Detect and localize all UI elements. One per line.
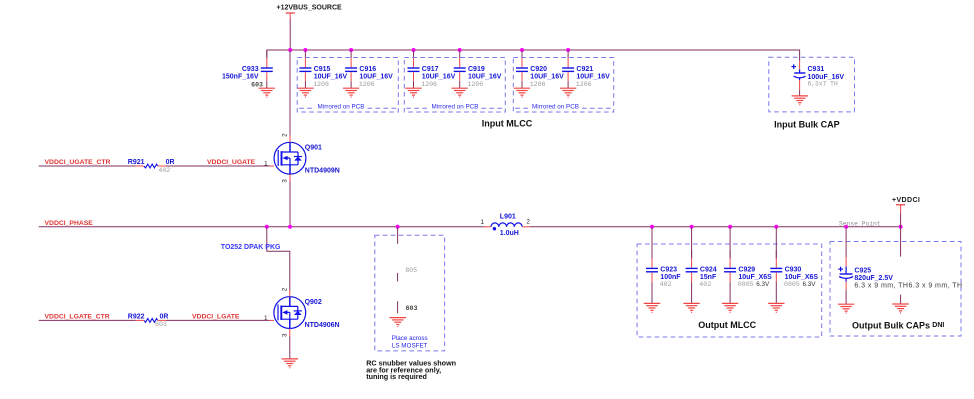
svg-text:603: 603 [155, 321, 167, 328]
svg-text:10UF_16V: 10UF_16V [314, 74, 348, 81]
capacitor C929 [724, 250, 736, 303]
R921 right pin stub [158, 165, 166, 167]
node bus/C917 [412, 48, 416, 52]
svg-text:1206: 1206 [530, 81, 546, 88]
dashed box RC snubber [375, 235, 445, 351]
svg-text:805: 805 [405, 267, 417, 274]
ground for C920 [514, 88, 530, 97]
R922 left pin stub [136, 319, 144, 321]
wire +12VBUS vertical to bus [289, 19, 291, 50]
svg-text:0805: 0805 [784, 281, 800, 288]
wire phase to C929 [729, 227, 731, 259]
wire phase to snubber resistor [397, 227, 399, 244]
svg-text:2: 2 [281, 287, 288, 291]
svg-text:Sense Point: Sense Point [839, 220, 881, 227]
capacitor C916 [345, 50, 357, 88]
capacitor C915 [299, 50, 311, 88]
wire snubber resistor to capacitor [397, 273, 399, 282]
svg-text:Q902: Q902 [305, 299, 322, 306]
wire DNI cap to ground [900, 295, 902, 304]
wire Q902 source to ground [289, 336, 291, 359]
wire Q901 source to phase [289, 182, 291, 227]
resistor R922 0R [144, 319, 158, 323]
ground for C925 [838, 304, 854, 313]
capacitor C921 [562, 50, 574, 88]
L901 pin 2 stub [522, 226, 529, 228]
svg-text:R922: R922 [128, 314, 145, 321]
wire VDDCI to DNI cap [900, 227, 902, 257]
ground for C917 [405, 88, 421, 97]
svg-text:Q901: Q901 [305, 145, 322, 152]
svg-text:Mirrored on PCB: Mirrored on PCB [532, 103, 579, 110]
L901 pin 1 stub [484, 226, 492, 228]
svg-text:C923: C923 [660, 266, 677, 273]
wire VDDCI_LGATE [166, 319, 269, 321]
svg-text:10UF_16V: 10UF_16V [576, 74, 610, 81]
svg-text:VDDCI_UGATE_CTR: VDDCI_UGATE_CTR [45, 159, 111, 166]
svg-text:150nF_16V: 150nF_16V [222, 74, 259, 81]
svg-text:1.0uH: 1.0uH [500, 230, 519, 237]
svg-text:402: 402 [158, 167, 170, 174]
wire bus to Q901 drain [289, 50, 291, 136]
node phase/jog [265, 225, 269, 229]
svg-text:tuning is required: tuning is required [366, 372, 427, 381]
wire phase jog to Q902 drain [267, 227, 290, 290]
svg-text:L901: L901 [500, 214, 516, 221]
svg-text:Input MLCC: Input MLCC [482, 118, 533, 128]
node phase/C923 [650, 225, 654, 229]
svg-text:R921: R921 [128, 159, 145, 166]
ground for C924 [683, 303, 699, 312]
svg-text:+12VBUS_SOURCE: +12VBUS_SOURCE [277, 4, 342, 11]
Q902 pin 3 stub [289, 329, 291, 337]
svg-text:LS MOSFET: LS MOSFET [392, 342, 428, 349]
Q902 pin 1 stub [269, 319, 274, 321]
svg-text:VDDCI_LGATE_CTR: VDDCI_LGATE_CTR [45, 314, 110, 321]
svg-text:10uF_X6S: 10uF_X6S [785, 274, 819, 281]
wire VDDCI_PHASE right of L901 [530, 226, 901, 228]
svg-text:100nF: 100nF [660, 274, 681, 281]
capacitor C923 [646, 250, 658, 303]
resistor R921 0R [144, 164, 158, 168]
svg-text:820uF_2.5V: 820uF_2.5V [854, 275, 893, 282]
dashed box mirrored on PCB 3 [513, 58, 613, 113]
svg-text:1206: 1206 [467, 81, 483, 88]
svg-text:0805: 0805 [738, 281, 754, 288]
node bus/C919 [458, 48, 462, 52]
svg-text:VDDCI_LGATE: VDDCI_LGATE [192, 314, 240, 321]
svg-text:10UF_16V: 10UF_16V [422, 74, 456, 81]
svg-text:VDDCI_UGATE: VDDCI_UGATE [207, 159, 256, 166]
svg-text:1206: 1206 [576, 81, 592, 88]
svg-text:TO252 DPAK PKG: TO252 DPAK PKG [221, 244, 281, 251]
svg-text:C925: C925 [854, 268, 871, 275]
svg-text:402: 402 [660, 281, 672, 288]
svg-text:C917: C917 [422, 66, 439, 73]
Q901 pin 1 stub [270, 165, 275, 167]
capacitor C924 [686, 250, 698, 303]
node phase/snubber [396, 225, 400, 229]
svg-text:3: 3 [281, 333, 288, 337]
R922 right pin stub [158, 319, 166, 321]
svg-text:2: 2 [526, 219, 530, 226]
svg-text:1206: 1206 [313, 81, 329, 88]
svg-text:Mirrored on PCB: Mirrored on PCB [432, 103, 479, 110]
svg-text:+VDDCI: +VDDCI [892, 197, 920, 204]
ground for C933 [259, 88, 275, 97]
ground for C923 [644, 303, 660, 312]
ground for C930 [768, 303, 784, 312]
dashed box mirrored on PCB 2 [404, 58, 505, 113]
svg-text:1206: 1206 [359, 81, 375, 88]
svg-text:603: 603 [251, 81, 263, 88]
wire VDDCI_PHASE left of L901 [39, 226, 484, 228]
svg-text:10uF_X6S: 10uF_X6S [738, 274, 772, 281]
wire VDDCI_LGATE_CTR [39, 319, 136, 321]
ground for Q902 source [282, 359, 298, 368]
capacitor C925 polarized [839, 227, 853, 304]
svg-text:C920: C920 [530, 66, 547, 73]
node bus/C915 [303, 48, 307, 52]
transistor Q901 NTD4909N [274, 142, 306, 174]
capacitor C931 polarized [794, 61, 806, 96]
Q901 pin 2 stub [289, 136, 291, 143]
node bus/main [288, 48, 292, 52]
svg-text:NTD4909N: NTD4909N [305, 168, 340, 175]
capacitor C933 [261, 50, 273, 88]
dashed box input bulk cap [769, 57, 855, 112]
ground for C916 [343, 88, 359, 97]
svg-text:Input Bulk CAP: Input Bulk CAP [774, 119, 840, 129]
svg-text:6.3V: 6.3V [803, 281, 817, 288]
svg-text:C916: C916 [359, 66, 376, 73]
node bus/C921 [566, 48, 570, 52]
capacitor C919 [454, 50, 466, 88]
svg-text:C929: C929 [738, 266, 755, 273]
wire snubber capacitor to ground [397, 301, 399, 313]
svg-text:0R: 0R [166, 159, 175, 166]
svg-text:6.3 x 9 mm, TH: 6.3 x 9 mm, TH [909, 283, 963, 290]
Q902 pin 2 stub [289, 290, 291, 297]
svg-text:402: 402 [699, 281, 711, 288]
inner dashed edge 3 [515, 107, 611, 109]
svg-text:6.3 x 9 mm, TH: 6.3 x 9 mm, TH [854, 283, 908, 290]
node bus/C920 [520, 48, 524, 52]
svg-text:6.3V: 6.3V [756, 281, 770, 288]
ground for C919 [452, 88, 468, 97]
node phase/C930 [774, 225, 778, 229]
node phase/Q901 [288, 225, 292, 229]
svg-text:603: 603 [406, 305, 418, 312]
capacitor C930 [770, 250, 782, 303]
svg-text:0R: 0R [160, 314, 169, 321]
wire VDDCI_UGATE_CTR [39, 165, 136, 167]
dashed box mirrored on PCB 1 [297, 58, 398, 113]
wire VDDCI_UGATE [166, 165, 270, 167]
inner dashed edge 2 [406, 107, 503, 109]
svg-text:C924: C924 [700, 266, 717, 273]
svg-text:1: 1 [480, 219, 484, 226]
node phase/C929 [728, 225, 732, 229]
transistor Q902 NTD4906N [274, 297, 306, 329]
power symbol +VDDCI bar [896, 205, 905, 213]
C931 plus sign [791, 64, 796, 69]
svg-text:Output MLCC: Output MLCC [698, 320, 756, 330]
svg-text:10UF_16V: 10UF_16V [359, 74, 393, 81]
R921 left pin stub [136, 165, 144, 167]
svg-text:10UF_16V: 10UF_16V [530, 74, 564, 81]
svg-text:Mirrored on PCB: Mirrored on PCB [318, 103, 365, 110]
node phase/C925 [844, 225, 848, 229]
node bus/C916 [349, 48, 353, 52]
svg-text:VDDCI_PHASE: VDDCI_PHASE [45, 220, 94, 227]
node phase/C924 [690, 225, 694, 229]
svg-text:1206: 1206 [421, 81, 437, 88]
svg-text:C915: C915 [314, 66, 331, 73]
svg-text:15nF: 15nF [700, 274, 717, 281]
ground for C929 [722, 303, 738, 312]
wire +VDDCI to phase [900, 213, 902, 227]
svg-text:3: 3 [282, 179, 289, 183]
ground for DNI cap [892, 304, 908, 313]
power symbol +12VBUS_SOURCE bar [286, 13, 295, 19]
dashed box output bulk caps [830, 242, 961, 337]
svg-text:Place across: Place across [392, 335, 428, 342]
svg-text:C931: C931 [808, 66, 825, 73]
ground for snubber [390, 318, 406, 327]
ground for C931 [792, 96, 808, 105]
svg-text:C933: C933 [242, 66, 259, 73]
node phase/VDDCI [899, 225, 903, 229]
L901 polarity dot [493, 227, 496, 230]
svg-text:C919: C919 [468, 66, 485, 73]
svg-text:C921: C921 [576, 66, 593, 73]
ground for C921 [560, 88, 576, 97]
svg-text:Output Bulk CAPs: Output Bulk CAPs [852, 321, 930, 331]
svg-text:6,3x7 TH: 6,3x7 TH [808, 81, 838, 88]
capacitor C920 [516, 50, 528, 88]
inner dashed edge 1 [299, 107, 396, 109]
dashed box output MLCC [637, 244, 822, 337]
wire +12VBUS horizontal bus [267, 50, 800, 61]
Q901 pin 3 stub [289, 174, 291, 182]
svg-text:2: 2 [282, 133, 289, 137]
svg-text:C930: C930 [785, 266, 802, 273]
wire phase to C923 [651, 227, 653, 259]
C925 plus sign [838, 267, 843, 272]
wire phase to C930 [775, 227, 777, 259]
svg-text:NTD4906N: NTD4906N [305, 322, 340, 329]
ground for C915 [297, 88, 313, 97]
wire phase to C924 [691, 227, 693, 259]
svg-text:DNI: DNI [932, 322, 944, 329]
capacitor C917 [408, 50, 420, 88]
svg-text:10UF_16V: 10UF_16V [468, 74, 502, 81]
